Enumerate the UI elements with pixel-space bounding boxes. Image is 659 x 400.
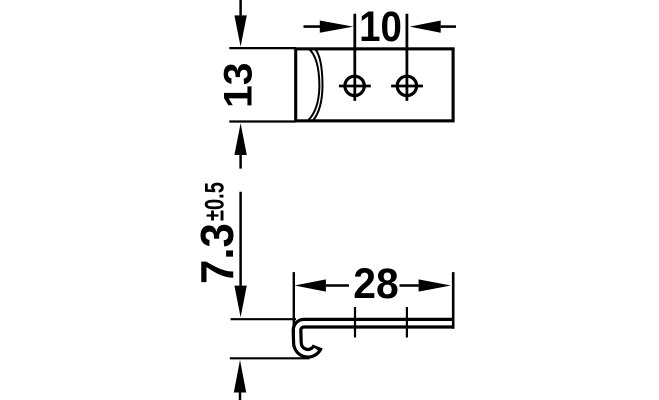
hole H2 position tick on side view — [406, 307, 408, 338]
hole H2 circle — [397, 76, 416, 95]
dim 10 left tail — [304, 25, 321, 28]
extension line plate top edge — [229, 47, 296, 49]
dim 10 right tail — [441, 25, 456, 28]
hole H2 centerline horizontal — [391, 85, 423, 88]
dim 13 upper arrowhead — [234, 15, 246, 46]
sheet profile side view core — [297, 323, 453, 353]
hole H1 centerline horizontal — [339, 85, 371, 88]
svg-text:10: 10 — [359, 2, 402, 50]
dim 28 right tail — [400, 284, 419, 287]
dim 13 line upper — [239, 0, 242, 15]
dim 7.3 bottom arrowhead — [234, 360, 246, 393]
svg-text:13: 13 — [216, 62, 260, 108]
dim 7.3 line — [239, 192, 242, 286]
dim 28 right arrowhead — [419, 279, 451, 291]
extension line hook top surface — [231, 318, 296, 320]
dim 28 right extension line / sheet end cap — [452, 272, 455, 329]
dim 13 lower arrowhead — [234, 123, 246, 155]
sheet profile side view outer stroke — [297, 323, 453, 353]
svg-text:7.3: 7.3 — [191, 223, 244, 284]
dim 28 left arrowhead — [295, 279, 326, 291]
extension line plate bottom edge — [229, 120, 296, 122]
svg-text:±0.5: ±0.5 — [200, 182, 229, 221]
dim 7.3 lower arrowhead — [234, 286, 246, 318]
dim 13 lower tail — [239, 155, 242, 169]
dim 7.3 bottom arrow tail — [239, 393, 242, 400]
svg-text:28: 28 — [353, 259, 398, 307]
hole H1 centerline vertical — [353, 14, 356, 101]
dim 10 right arrowhead — [410, 21, 441, 33]
bracket plate top view outline — [296, 49, 453, 121]
hole H2 centerline vertical — [405, 14, 408, 101]
bend tangent arc inner (top view) — [308, 49, 320, 121]
hole H1 circle — [345, 76, 364, 95]
extension line hook bottom — [230, 357, 310, 359]
dim 10 left arrowhead — [320, 21, 353, 33]
hole H1 position tick on side view — [354, 307, 356, 338]
dim 28 left extension line — [293, 272, 295, 333]
bend tangent arc outer (top view) — [313, 49, 323, 121]
dim 28 left tail — [326, 284, 349, 287]
